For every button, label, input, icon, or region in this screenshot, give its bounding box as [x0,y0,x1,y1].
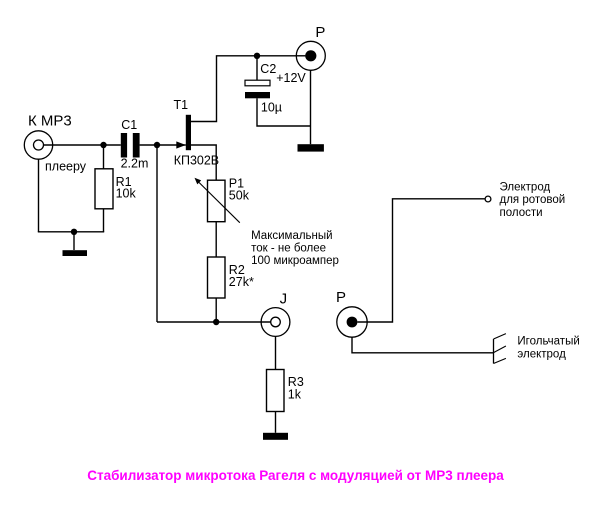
connector X1 "К MP3" [24,131,52,159]
label Электрод для ротовой полости [500,181,566,219]
svg-text:2.2m: 2.2m [121,156,149,170]
svg-text:1k: 1k [288,387,302,401]
wire gate node down [156,145,158,322]
svg-text:К MP3: К MP3 [28,113,72,130]
wire bottom rail to J [157,321,271,323]
ground GND2 [298,144,324,151]
wire R1 bottom to ground rail [103,209,105,232]
svg-text:27k*: 27k* [229,275,254,289]
wire R2 to bottom rail [215,298,217,322]
node junction input/R1 [100,142,106,148]
gate arrow of T1 [176,141,186,148]
svg-text:J: J [280,290,288,307]
wire source of T1 to P1 [191,145,216,180]
svg-text:10µ: 10µ [261,100,282,114]
wire P right to oral electrode [357,199,485,322]
svg-text:10k: 10k [116,187,137,201]
connector J inner pin [271,317,281,327]
svg-text:Максимальный: Максимальный [251,230,332,242]
ground GND3 [263,433,288,440]
wire drain of T1 to P plug [191,56,305,122]
svg-text:P: P [336,289,346,306]
node junction after C1 [154,142,160,148]
svg-text:100 микроампер: 100 микроампер [251,255,339,267]
node junction R2/rail [213,319,219,325]
svg-text:плееру: плееру [45,159,87,173]
connector J jack [261,308,290,337]
svg-text:T1: T1 [174,98,189,112]
label Максимальный ток - не более 100 микроампер [251,230,339,267]
wire junction to C2 [256,56,258,80]
node junction C2/+12V [254,53,260,59]
needle electrode symbol [494,334,506,364]
svg-text:для ротовой: для ротовой [500,194,566,206]
svg-text:Стабилизатор микротока Рагеля: Стабилизатор микротока Рагеля с модуляци… [87,468,504,483]
svg-text:C2: C2 [260,62,276,76]
resistor R2 [208,257,226,298]
svg-text:КП302В: КП302В [174,153,219,167]
potentiometer P1 [195,178,240,223]
svg-text:ток - не более: ток - не более [251,243,326,255]
wire R3 to ground [275,412,277,433]
terminal oral electrode [485,196,491,202]
wire P right to needle electrode [352,337,494,353]
svg-text:C1: C1 [121,118,137,132]
resistor R3 [267,370,285,412]
wire J to R3 [275,336,277,369]
wire input to C1 [44,144,121,146]
wire junction to R1 top [103,145,105,169]
svg-text:Игольчатый: Игольчатый [517,335,579,347]
svg-text:50k: 50k [229,188,250,202]
capacitor C1 [121,133,140,158]
connector P top +12V plug [296,41,325,70]
svg-text:электрод: электрод [517,349,566,361]
resistor R1 [95,169,113,209]
transistor T1 channel bar [186,115,191,150]
svg-text:P: P [315,24,325,41]
capacitor C2 electrolytic [245,80,270,98]
svg-text:полости: полости [500,207,543,219]
svg-text:+12V: +12V [276,71,306,85]
node junction ground rail [71,229,77,235]
wire P top to ground [310,70,312,144]
wire ground rail [38,231,104,233]
wire C2 bottom to P stub [257,98,311,126]
ground GND1 [63,232,88,256]
wire C1 to gate node [140,144,186,146]
wire X1 down [38,159,40,232]
connector P right plug [337,307,367,337]
label Игольчатый электрод [517,335,579,360]
svg-text:Электрод: Электрод [500,181,551,193]
wire P1 to R2 [215,222,217,257]
